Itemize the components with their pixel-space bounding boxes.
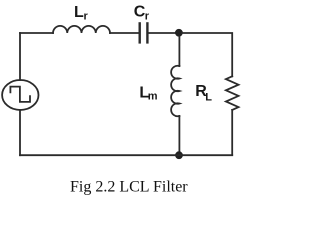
svg-text:m: m <box>148 90 158 102</box>
label RL <box>195 83 212 103</box>
svg-text:L: L <box>74 4 84 21</box>
label Lm <box>139 85 157 103</box>
svg-text:Fig 2.2 LCL Filter: Fig 2.2 LCL Filter <box>70 179 188 196</box>
wire node A down to inductor Lm <box>178 37 180 66</box>
inductor L2 (Lm) coil <box>171 66 179 117</box>
node B junction dot <box>175 151 183 159</box>
wire inductor to capacitor <box>110 32 138 34</box>
resistor R1 (RL) zigzag <box>226 76 239 110</box>
label Lr <box>74 4 89 22</box>
wire top-left horizontal <box>20 32 53 34</box>
source V1 circle <box>2 80 38 110</box>
wire capacitor to node A <box>149 32 176 34</box>
wire node A to top-right corner and down to resistor <box>182 33 232 76</box>
inductor L1 (Lr) <box>53 26 110 33</box>
node A junction dot <box>175 29 183 37</box>
wire left top (source to top wire) <box>19 33 21 80</box>
label Cr <box>134 4 150 23</box>
capacitor C1 (Cr) <box>140 23 148 42</box>
wire bottom <box>20 154 232 156</box>
svg-text:r: r <box>84 10 89 22</box>
svg-text:r: r <box>145 10 150 22</box>
wire Lm to node B <box>178 116 180 151</box>
wire resistor to bottom-right corner <box>231 110 233 155</box>
source V1 square-wave symbol <box>10 87 30 102</box>
wire left bottom (source to bottom wire) <box>19 110 21 155</box>
svg-text:L: L <box>205 91 212 103</box>
